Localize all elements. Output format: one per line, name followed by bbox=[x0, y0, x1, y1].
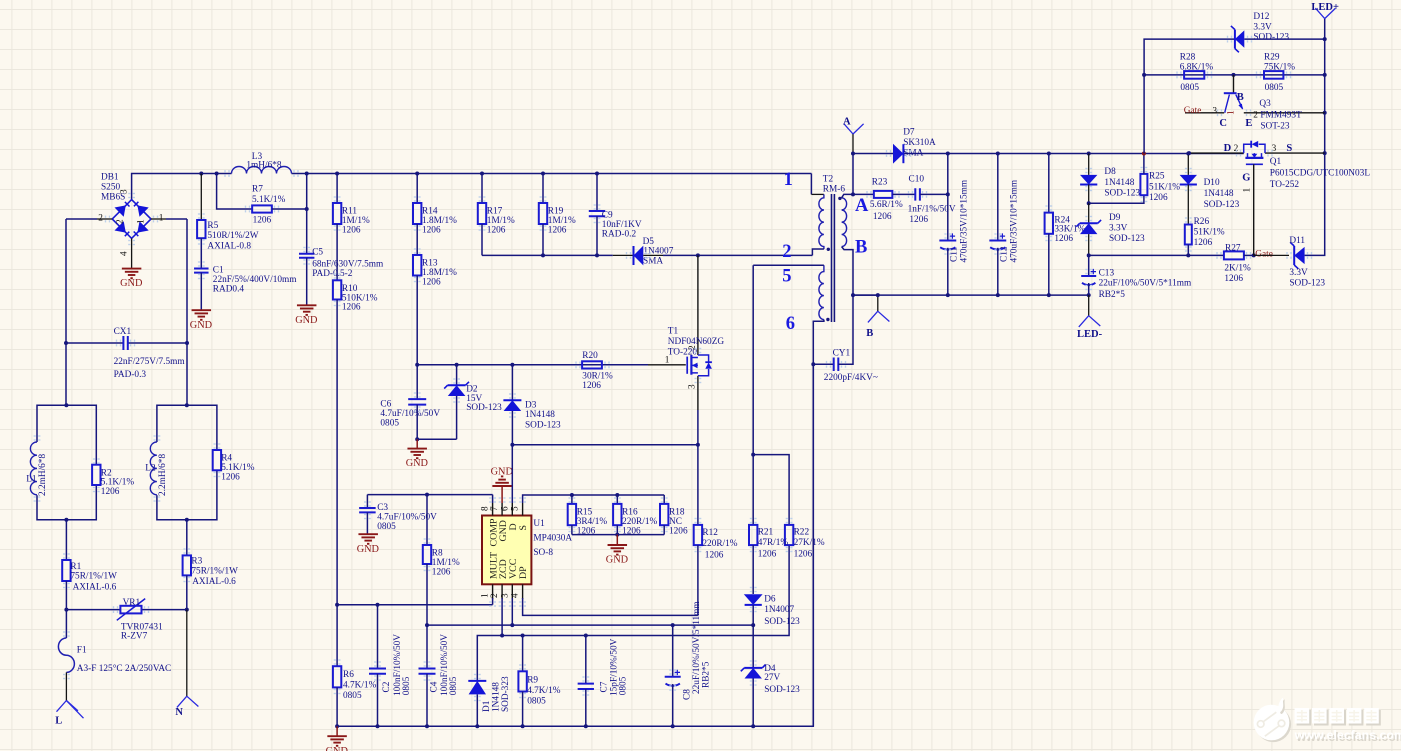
diode D3 bbox=[504, 400, 522, 411]
svg-text:0805: 0805 bbox=[377, 522, 396, 532]
svg-text:LED+: LED+ bbox=[1311, 2, 1339, 13]
node R17 top bbox=[480, 172, 484, 176]
ground under C5 bbox=[297, 304, 317, 306]
svg-text:C8: C8 bbox=[683, 689, 693, 700]
node C11 bottom bbox=[946, 293, 950, 297]
svg-text:S: S bbox=[1286, 143, 1292, 154]
bridge rectifier DB1 bbox=[98, 173, 164, 257]
svg-text:1206: 1206 bbox=[909, 215, 928, 225]
svg-text:1: 1 bbox=[1243, 188, 1253, 193]
node rail625 right bbox=[751, 623, 755, 627]
svg-text:1N4148: 1N4148 bbox=[492, 682, 502, 712]
svg-text:5.6R/1%: 5.6R/1% bbox=[870, 200, 903, 210]
node R16 top bbox=[615, 493, 619, 497]
svg-text:PAD-0.5-2: PAD-0.5-2 bbox=[312, 269, 353, 279]
svg-text:2.2mH/6*8: 2.2mH/6*8 bbox=[158, 454, 168, 496]
wire rail to R17 bbox=[481, 174, 483, 204]
resistor R21 bbox=[749, 525, 757, 545]
svg-text:1206: 1206 bbox=[1054, 234, 1073, 244]
resistor R14 bbox=[413, 203, 421, 224]
svg-text:68nF/630V/7.5mm: 68nF/630V/7.5mm bbox=[312, 259, 384, 269]
ground under C3 bbox=[358, 533, 378, 535]
node rail604 left bbox=[335, 603, 339, 607]
resistor R7 bbox=[252, 205, 272, 212]
transformer T2 core bbox=[832, 194, 835, 322]
node B stub bbox=[876, 293, 880, 297]
node bottom rail x=337.1 bbox=[335, 724, 339, 728]
wire R15 down bbox=[571, 525, 573, 534]
resistor R15 bbox=[568, 504, 576, 525]
svg-text:E: E bbox=[1245, 118, 1252, 129]
svg-text:1206: 1206 bbox=[1149, 193, 1168, 203]
svg-text:L: L bbox=[55, 716, 62, 727]
svg-text:F1: F1 bbox=[77, 646, 87, 656]
resistor R26 bbox=[1185, 225, 1192, 245]
svg-text:2: 2 bbox=[782, 242, 791, 262]
svg-text:R9: R9 bbox=[527, 675, 538, 685]
wire VR1 to F1 bbox=[65, 610, 67, 638]
svg-text:LED-: LED- bbox=[1077, 329, 1103, 340]
ground above U1 pin7 bbox=[492, 485, 512, 487]
wire R3 to VR1 node bbox=[186, 575, 188, 609]
node D12 right bbox=[1323, 37, 1327, 41]
svg-text:0805: 0805 bbox=[1180, 83, 1199, 93]
resistor R23 bbox=[874, 191, 893, 198]
wire to C3 bbox=[366, 495, 368, 508]
diode D7 bbox=[893, 144, 903, 164]
resistor R28 bbox=[1184, 71, 1204, 79]
node bottom rail x=522.6 bbox=[521, 724, 525, 728]
wire to LED- bbox=[1088, 295, 1090, 316]
wire R10 down left rail bbox=[336, 300, 338, 605]
node bottom rail x=477.3 bbox=[475, 724, 479, 728]
wire rail to R19 bbox=[542, 174, 544, 204]
svg-text:DP: DP bbox=[518, 566, 529, 579]
svg-text:1206: 1206 bbox=[221, 472, 240, 482]
svg-text:RB2*5: RB2*5 bbox=[702, 661, 712, 688]
node R24 bottom bbox=[1047, 293, 1051, 297]
node L1 bottom bbox=[64, 518, 68, 522]
transformer T2 secondary winding A-B bbox=[842, 198, 847, 247]
svg-text:R21: R21 bbox=[758, 528, 774, 538]
svg-text:SOT-23: SOT-23 bbox=[1260, 122, 1289, 132]
wire VCC rail625 bbox=[427, 624, 753, 626]
resistor R5 bbox=[197, 220, 205, 238]
ground under C6 bbox=[407, 448, 427, 450]
svg-text:B: B bbox=[1237, 92, 1244, 103]
svg-text:D: D bbox=[1224, 143, 1232, 154]
svg-text:3: 3 bbox=[1212, 107, 1217, 117]
node R5 top bbox=[199, 172, 203, 176]
svg-text:1: 1 bbox=[665, 355, 670, 365]
wire to R9 bbox=[522, 636, 524, 672]
svg-text:RB2*5: RB2*5 bbox=[1099, 290, 1126, 300]
svg-text:GND: GND bbox=[326, 746, 349, 751]
resistor R6 bbox=[333, 666, 341, 687]
wire to D10 bbox=[1187, 154, 1189, 175]
svg-text:CY1: CY1 bbox=[833, 349, 851, 359]
zener diode D12 bbox=[1235, 30, 1244, 47]
svg-text:6: 6 bbox=[500, 506, 510, 511]
wire pin3 down bbox=[511, 598, 513, 625]
wire rail to R14 bbox=[416, 174, 418, 204]
wire pin1 jog h bbox=[811, 193, 824, 195]
wire pin5 down bbox=[752, 265, 754, 454]
svg-text:4.7K/1%: 4.7K/1% bbox=[343, 681, 377, 691]
resistor R2 bbox=[92, 465, 100, 485]
svg-text:GND: GND bbox=[120, 278, 143, 289]
transistor Q3 (FMM493T) bbox=[1185, 75, 1325, 132]
wire LED+ rail bbox=[1324, 19, 1326, 154]
svg-text:MP4030A: MP4030A bbox=[533, 534, 572, 544]
wire D3 to D rail bbox=[511, 411, 513, 445]
wire to R23 bbox=[853, 193, 874, 195]
svg-text:GND: GND bbox=[406, 458, 429, 469]
node triplet gnd bbox=[615, 533, 619, 537]
wire row255 left bbox=[482, 254, 613, 256]
node R15 top bbox=[570, 493, 574, 497]
wire bridge pin1 stub bbox=[151, 218, 166, 220]
svg-text:33K/1%: 33K/1% bbox=[1054, 224, 1085, 234]
svg-text:4: 4 bbox=[511, 593, 521, 598]
wire to R16 bbox=[616, 495, 618, 504]
svg-text:C3: C3 bbox=[377, 503, 388, 513]
inductor L3 bbox=[232, 167, 292, 174]
varistor VR1 bbox=[120, 606, 141, 614]
wire C6-D2 row bbox=[417, 438, 456, 440]
node D3 top bbox=[510, 363, 514, 367]
transformer secondary polarity dot bbox=[838, 197, 841, 200]
wire to R12 bbox=[697, 445, 699, 525]
wire to C6 bbox=[416, 365, 418, 399]
svg-text:1206: 1206 bbox=[101, 487, 120, 497]
wire B row start bbox=[853, 294, 878, 296]
wire F1 to L bbox=[65, 672, 67, 700]
svg-text:1nF/1%/50V: 1nF/1%/50V bbox=[908, 204, 956, 214]
port A bbox=[844, 124, 864, 135]
svg-text:1206: 1206 bbox=[422, 225, 441, 235]
svg-text:D1: D1 bbox=[482, 700, 492, 712]
wire rail604 bbox=[337, 604, 493, 606]
port L bbox=[57, 701, 79, 712]
svg-text:1206: 1206 bbox=[342, 303, 361, 313]
svg-text:T2: T2 bbox=[823, 175, 834, 185]
node C6 ground tap bbox=[415, 437, 419, 441]
zener diode D9 bbox=[1080, 223, 1097, 234]
diode D6 bbox=[744, 594, 763, 605]
wire D5 anode stub bbox=[643, 254, 663, 256]
svg-text:C7: C7 bbox=[600, 681, 610, 692]
transistor T1 (MOSFET NDF04N60ZG) bbox=[665, 255, 725, 410]
svg-text:510R/1%/2W: 510R/1%/2W bbox=[207, 231, 258, 241]
svg-text:22uF/10%/50V/5*11mm: 22uF/10%/50V/5*11mm bbox=[692, 601, 702, 694]
wire to right bus bbox=[166, 218, 187, 220]
node C9 bottom bbox=[595, 253, 599, 257]
resistor R20 bbox=[582, 361, 602, 368]
capacitor C6 bbox=[408, 399, 426, 405]
svg-text:0805: 0805 bbox=[527, 697, 546, 707]
port N bbox=[177, 696, 199, 707]
node D8-D9 bbox=[1087, 201, 1091, 205]
wire R12 down bbox=[697, 545, 699, 615]
wire D2 to C6 row bbox=[456, 396, 458, 439]
wire to R24 bbox=[1048, 154, 1050, 213]
svg-text:www.elecfans.com: www.elecfans.com bbox=[1294, 728, 1401, 742]
ground under R16 bbox=[608, 544, 628, 546]
svg-text:1206: 1206 bbox=[487, 225, 506, 235]
ground under bridge bbox=[122, 268, 142, 270]
node row255r left bbox=[1087, 253, 1091, 257]
svg-text:GND: GND bbox=[295, 315, 318, 326]
wire to R25 bottom bbox=[1089, 195, 1144, 203]
svg-text:SOD-123: SOD-123 bbox=[764, 617, 800, 627]
wire R25 col up bbox=[1143, 75, 1145, 154]
svg-text:75R/1%/1W: 75R/1%/1W bbox=[70, 572, 117, 582]
wire to R6 bbox=[336, 605, 338, 667]
wire D12 row bbox=[1144, 39, 1235, 75]
watermark text bbox=[1294, 708, 1401, 744]
node D8 top bbox=[1087, 152, 1091, 156]
node L2 bottom bbox=[185, 518, 189, 522]
svg-text:T1: T1 bbox=[668, 326, 679, 336]
svg-text:R22: R22 bbox=[794, 528, 810, 538]
svg-text:470uF/35V/10*15mm: 470uF/35V/10*15mm bbox=[959, 179, 969, 262]
resistor R24 bbox=[1045, 213, 1053, 234]
transformer aux polarity dot bbox=[826, 318, 829, 321]
svg-text:1: 1 bbox=[159, 213, 164, 223]
node R26 bottom bbox=[1186, 253, 1190, 257]
svg-text:1206: 1206 bbox=[1194, 238, 1213, 248]
fuse F1 bbox=[58, 638, 74, 672]
wire pin2 jog bbox=[812, 249, 824, 255]
svg-text:C4: C4 bbox=[429, 681, 439, 692]
svg-text:1206: 1206 bbox=[342, 225, 361, 235]
wire S rail bbox=[523, 495, 665, 503]
svg-text:D9: D9 bbox=[1109, 213, 1121, 223]
wire to R21 bbox=[752, 455, 754, 525]
svg-text:AXIAL-0.8: AXIAL-0.8 bbox=[207, 242, 251, 252]
svg-text:2K/1%: 2K/1% bbox=[1224, 264, 1251, 274]
svg-text:C13: C13 bbox=[1099, 268, 1115, 278]
node R29 right bbox=[1323, 73, 1327, 77]
svg-text:30R/1%: 30R/1% bbox=[582, 371, 613, 381]
svg-text:D6: D6 bbox=[764, 595, 776, 605]
resistor R19 bbox=[539, 203, 547, 224]
wire rail to R11 bbox=[336, 174, 338, 204]
wire D rail bbox=[512, 444, 698, 446]
wire triplet bottom bbox=[572, 534, 664, 536]
node VR1 right bbox=[185, 608, 189, 612]
resistor R22 bbox=[785, 525, 793, 545]
node C2 top bbox=[376, 603, 380, 607]
node C11 tap bbox=[946, 192, 950, 196]
wire CX1 right bbox=[128, 342, 187, 344]
svg-text:6: 6 bbox=[786, 314, 795, 334]
capacitor C7 bbox=[578, 684, 594, 689]
node A junction bbox=[851, 152, 855, 156]
resistor R9 bbox=[518, 671, 526, 691]
svg-text:SOD-123: SOD-123 bbox=[466, 403, 502, 413]
svg-text:SOD-123: SOD-123 bbox=[1104, 188, 1140, 198]
svg-text:RAD-0.2: RAD-0.2 bbox=[602, 229, 637, 239]
svg-text:5: 5 bbox=[782, 267, 791, 287]
svg-text:S: S bbox=[518, 525, 529, 531]
svg-text:C5: C5 bbox=[312, 247, 323, 257]
node T1 drain tap bbox=[696, 253, 700, 257]
svg-text:L1: L1 bbox=[26, 474, 37, 484]
node R14 top bbox=[415, 172, 419, 176]
wire CX1 left bbox=[66, 342, 123, 344]
svg-text:B: B bbox=[855, 238, 867, 258]
node Q3 base bbox=[1232, 73, 1236, 77]
wire C9 down bbox=[596, 216, 598, 255]
capacitor C13 (electrolytic) bbox=[1081, 275, 1096, 277]
node L1 top bbox=[64, 403, 68, 407]
wire secondary rail bbox=[853, 153, 1244, 155]
wire R24 down bbox=[1048, 234, 1050, 295]
wire A stub bbox=[852, 134, 854, 154]
svg-text:0805: 0805 bbox=[402, 676, 412, 695]
svg-text:3.3V: 3.3V bbox=[1109, 224, 1128, 234]
wire pin1 jog v bbox=[810, 174, 812, 195]
node C7 top bbox=[584, 634, 588, 638]
svg-text:GND: GND bbox=[606, 555, 629, 566]
svg-text:2: 2 bbox=[1234, 144, 1239, 154]
svg-text:0805: 0805 bbox=[449, 676, 459, 695]
resistor R18 bbox=[660, 504, 668, 525]
svg-text:2: 2 bbox=[688, 345, 698, 350]
resistor R13 bbox=[413, 255, 421, 276]
svg-text:R5: R5 bbox=[207, 221, 218, 231]
wire to C7 bbox=[585, 636, 587, 684]
svg-text:1206: 1206 bbox=[1224, 274, 1243, 284]
svg-text:7: 7 bbox=[490, 506, 500, 511]
svg-text:AXIAL-0.6: AXIAL-0.6 bbox=[73, 582, 117, 592]
wire pin4 DP row bbox=[523, 598, 698, 615]
svg-text:C2: C2 bbox=[382, 681, 392, 692]
wire C5 to ground bbox=[306, 258, 308, 305]
svg-text:SK310A: SK310A bbox=[903, 138, 936, 148]
wire pin6 D up bbox=[511, 445, 513, 503]
transformer T2 aux winding 5-6 bbox=[819, 265, 824, 319]
resistor R11 bbox=[333, 203, 341, 224]
svg-text:1206: 1206 bbox=[705, 550, 724, 560]
svg-text:R26: R26 bbox=[1194, 217, 1210, 227]
node gate tap bbox=[1252, 253, 1256, 257]
wire C2 down bbox=[377, 674, 379, 727]
wire T1 gate stub bbox=[648, 364, 686, 366]
svg-text:R1: R1 bbox=[70, 562, 81, 572]
ground bottom rail bbox=[327, 735, 347, 737]
svg-text:A3-F 125°C 2A/250VAC: A3-F 125°C 2A/250VAC bbox=[77, 663, 171, 674]
svg-text:1: 1 bbox=[137, 219, 147, 224]
wire R26 down bbox=[1187, 245, 1189, 256]
wire to R22 bbox=[753, 455, 789, 525]
wire pin8 up bbox=[492, 495, 494, 503]
transformer T2 primary winding bbox=[819, 194, 824, 249]
svg-text:2200pF/4KV~: 2200pF/4KV~ bbox=[824, 373, 878, 383]
svg-text:1206: 1206 bbox=[794, 550, 813, 560]
svg-text:R27: R27 bbox=[1225, 243, 1241, 253]
wire R8 down to C4 bbox=[426, 564, 428, 669]
svg-text:1206: 1206 bbox=[432, 567, 451, 577]
capacitor CY1 bbox=[834, 358, 839, 372]
wire bottom rail bbox=[337, 364, 813, 726]
wire rail to C9 bbox=[596, 174, 598, 212]
svg-text:0805: 0805 bbox=[1265, 83, 1284, 93]
diode D8 bbox=[1080, 175, 1097, 185]
wire to D9 bbox=[1088, 203, 1090, 223]
svg-text:C10: C10 bbox=[909, 174, 925, 184]
node rail625 left bbox=[425, 623, 429, 627]
wire VR1 right bbox=[142, 609, 187, 611]
svg-text:SOD-123: SOD-123 bbox=[1109, 234, 1145, 244]
resistor R8 bbox=[423, 545, 431, 564]
wire to left bus bbox=[66, 218, 97, 220]
wire to R15 bbox=[571, 495, 573, 504]
svg-text:3.3V: 3.3V bbox=[1253, 22, 1272, 32]
svg-text:1206: 1206 bbox=[548, 225, 567, 235]
svg-text:1: 1 bbox=[1226, 110, 1236, 115]
node R8 top bbox=[425, 493, 429, 497]
resistor R27 bbox=[1224, 251, 1244, 259]
node C13 bottom bbox=[1087, 293, 1091, 297]
svg-text:C9: C9 bbox=[602, 210, 613, 220]
node R19 bottom bbox=[541, 253, 545, 257]
transformer primary polarity dot bbox=[827, 248, 830, 251]
resistor R29 bbox=[1264, 71, 1283, 79]
node CX1 right bbox=[185, 341, 189, 345]
svg-text:A: A bbox=[843, 117, 851, 128]
wire C12 down bbox=[997, 248, 999, 295]
node D rail right bbox=[696, 443, 700, 447]
node D rail left bbox=[510, 443, 514, 447]
wire to R8 bbox=[426, 495, 428, 545]
svg-text:FMM493T: FMM493T bbox=[1260, 111, 1302, 121]
svg-text:1N4007: 1N4007 bbox=[764, 605, 794, 615]
svg-text:1mH/6*8: 1mH/6*8 bbox=[246, 161, 281, 171]
svg-text:1: 1 bbox=[784, 170, 793, 190]
svg-text:D10: D10 bbox=[1204, 178, 1220, 188]
resistor R3 bbox=[183, 555, 191, 575]
node C9 top bbox=[595, 172, 599, 176]
svg-text:Gate: Gate bbox=[1184, 106, 1202, 116]
wire to D2 bbox=[456, 365, 458, 385]
port LED+ bbox=[1315, 8, 1335, 19]
svg-text:B: B bbox=[866, 328, 873, 339]
wire to C13 bbox=[1088, 255, 1090, 275]
diode D5 bbox=[634, 246, 644, 266]
wire right bus N bbox=[186, 219, 188, 405]
resistor R1 bbox=[62, 560, 70, 581]
node bottom rail x=427 bbox=[425, 724, 429, 728]
svg-text:1206: 1206 bbox=[253, 215, 272, 225]
node R19 top bbox=[541, 172, 545, 176]
node D2 top bbox=[455, 363, 459, 367]
svg-text:5.1K/1%: 5.1K/1% bbox=[252, 195, 286, 205]
node bottom rail x=585.8 bbox=[584, 724, 588, 728]
capacitor C4 bbox=[419, 669, 436, 674]
inductor L2 with resistor R4 loop bbox=[157, 405, 217, 520]
wire to C11 bbox=[947, 154, 949, 241]
svg-text:TO-252: TO-252 bbox=[1270, 180, 1300, 190]
node R11 top bbox=[335, 172, 339, 176]
wire D4 down bbox=[752, 679, 754, 727]
wire to D11 bbox=[1254, 254, 1289, 256]
svg-text:3: 3 bbox=[120, 189, 130, 194]
wire bridge pin2 stub bbox=[97, 218, 112, 220]
svg-text:2: 2 bbox=[490, 593, 500, 598]
